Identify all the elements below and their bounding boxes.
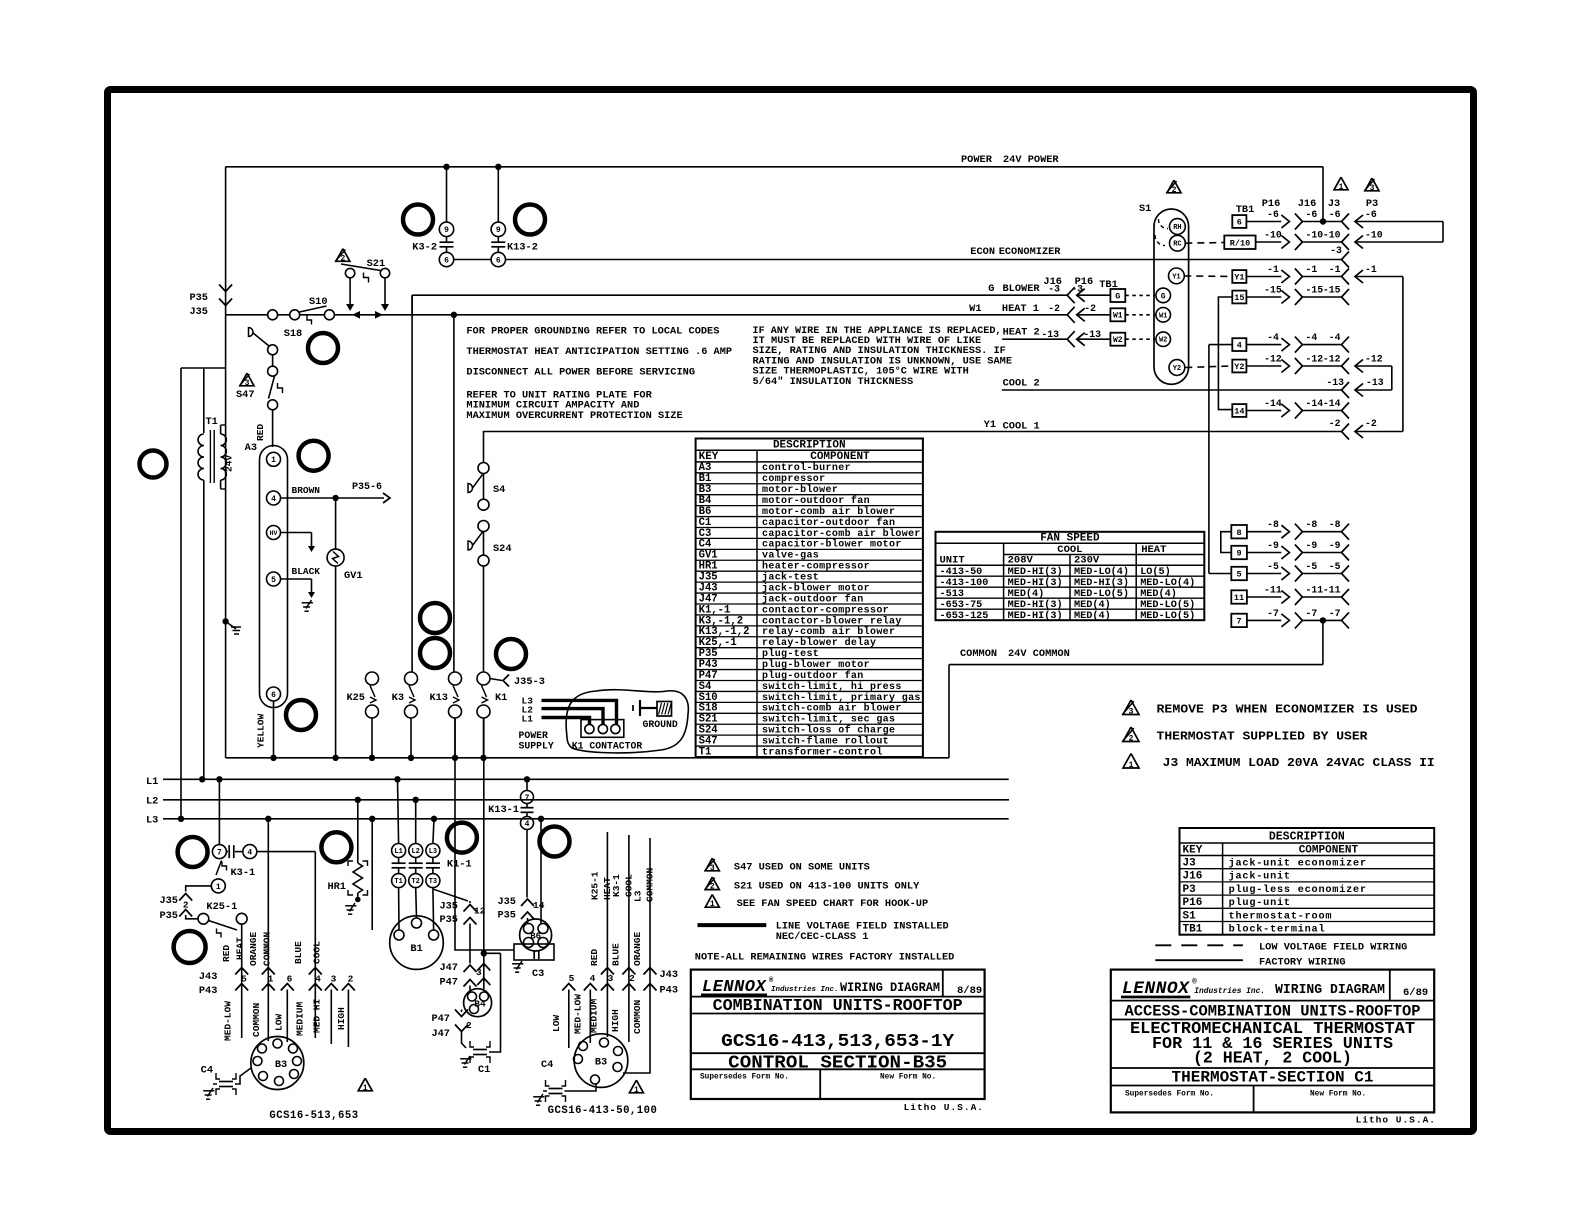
svg-text:C4: C4 — [201, 1065, 213, 1077]
svg-text:-6: -6 — [1267, 209, 1279, 220]
svg-text:-9: -9 — [1329, 540, 1341, 551]
svg-text:ECONOMIZER: ECONOMIZER — [999, 246, 1062, 258]
svg-text:1: 1 — [1129, 761, 1134, 770]
svg-text:-4: -4 — [1267, 332, 1279, 343]
svg-text:-13: -13 — [1083, 329, 1101, 340]
svg-text:Supersedes Form No.: Supersedes Form No. — [1125, 1091, 1214, 1099]
svg-text:C3: C3 — [532, 968, 544, 980]
svg-text:-653-75: -653-75 — [940, 600, 983, 611]
svg-text:9: 9 — [496, 226, 501, 235]
svg-text:POWER: POWER — [961, 154, 993, 166]
svg-text:2: 2 — [183, 900, 189, 911]
svg-text:plug-blower motor: plug-blower motor — [762, 659, 870, 671]
svg-text:K25-1: K25-1 — [590, 871, 601, 900]
svg-text:5/64" INSULATION THICKNESS: 5/64" INSULATION THICKNESS — [753, 376, 914, 388]
svg-text:6: 6 — [271, 691, 276, 700]
svg-text:3: 3 — [608, 973, 614, 984]
svg-text:New Form No.: New Form No. — [1310, 1091, 1366, 1099]
svg-text:S21 USED ON 413-100 UNITS ONLY: S21 USED ON 413-100 UNITS ONLY — [734, 880, 920, 892]
svg-text:-6: -6 — [1329, 209, 1341, 220]
svg-text:Industries Inc.: Industries Inc. — [771, 986, 839, 994]
svg-text:-8: -8 — [1306, 519, 1318, 530]
svg-text:Litho U.S.A.: Litho U.S.A. — [1356, 1115, 1436, 1126]
svg-text:MED(4): MED(4) — [1074, 610, 1111, 622]
svg-text:-5: -5 — [1306, 561, 1318, 572]
svg-text:S18: S18 — [284, 328, 303, 340]
svg-text:ECON: ECON — [970, 246, 995, 258]
svg-text:-8: -8 — [1329, 519, 1341, 530]
svg-text:S47 USED ON SOME UNITS: S47 USED ON SOME UNITS — [734, 862, 870, 874]
svg-text:NEC/CEC-CLASS 1: NEC/CEC-CLASS 1 — [776, 931, 869, 943]
svg-text:-15: -15 — [1264, 285, 1282, 296]
svg-text:POWER: POWER — [519, 730, 549, 741]
svg-text:P35: P35 — [497, 910, 516, 922]
svg-text:J43: J43 — [199, 971, 218, 983]
svg-text:MED-LOW: MED-LOW — [573, 994, 584, 1034]
svg-text:1: 1 — [1339, 183, 1344, 192]
svg-text:motor-comb air blower: motor-comb air blower — [762, 506, 895, 518]
svg-text:14: 14 — [533, 900, 545, 911]
svg-text:9: 9 — [1236, 549, 1241, 559]
svg-text:-15: -15 — [1323, 285, 1341, 296]
svg-text:MEDIUM: MEDIUM — [589, 998, 600, 1033]
svg-text:W2: W2 — [1159, 337, 1167, 345]
svg-text:L1: L1 — [146, 776, 158, 788]
svg-text:RED: RED — [221, 945, 232, 962]
svg-text:COMMON: COMMON — [960, 648, 997, 660]
svg-text:K13: K13 — [429, 692, 448, 704]
svg-text:-7: -7 — [1329, 608, 1341, 619]
svg-text:jack-test: jack-test — [762, 572, 819, 584]
svg-text:B3: B3 — [595, 1057, 607, 1069]
svg-text:G: G — [1161, 292, 1166, 301]
svg-text:24V COMMON: 24V COMMON — [1008, 648, 1070, 660]
svg-text:Y2: Y2 — [1234, 362, 1244, 372]
svg-text:B6: B6 — [530, 932, 541, 942]
svg-text:-3: -3 — [1330, 245, 1342, 256]
svg-text:ORANGE: ORANGE — [632, 931, 643, 966]
svg-text:4: 4 — [247, 848, 252, 857]
svg-text:C4: C4 — [541, 1059, 553, 1071]
svg-text:MED-LOW: MED-LOW — [223, 1001, 234, 1041]
svg-text:-6: -6 — [1306, 209, 1318, 220]
svg-text:6/89: 6/89 — [1403, 987, 1428, 999]
svg-text:Y1: Y1 — [1234, 273, 1244, 283]
svg-text:HEAT 2: HEAT 2 — [1003, 327, 1040, 339]
svg-text:G: G — [988, 283, 994, 295]
svg-text:-14: -14 — [1306, 398, 1324, 409]
svg-text:J47: J47 — [439, 962, 458, 974]
svg-text:K3-1: K3-1 — [611, 874, 622, 897]
svg-text:plug-test: plug-test — [762, 648, 819, 660]
svg-text:W1: W1 — [969, 303, 981, 315]
svg-text:K1-1: K1-1 — [447, 859, 472, 871]
svg-text:-10: -10 — [1365, 230, 1383, 241]
svg-text:K3: K3 — [392, 692, 404, 704]
svg-text:1: 1 — [216, 883, 221, 892]
svg-text:J35: J35 — [159, 895, 178, 907]
svg-text:BLUE: BLUE — [611, 943, 622, 966]
svg-text:L1: L1 — [394, 848, 402, 856]
svg-text:compressor: compressor — [762, 474, 826, 485]
svg-text:block-terminal: block-terminal — [1229, 924, 1326, 936]
svg-text:COMBINATION UNITS-ROOFTOP: COMBINATION UNITS-ROOFTOP — [713, 996, 963, 1015]
svg-text:4: 4 — [271, 495, 276, 504]
svg-text:DISCONNECT ALL POWER BEFORE SE: DISCONNECT ALL POWER BEFORE SERVICING — [466, 366, 695, 378]
svg-text:3: 3 — [1129, 707, 1134, 716]
svg-text:7: 7 — [525, 794, 530, 803]
svg-text:jack-unit: jack-unit — [1229, 871, 1291, 883]
svg-text:®: ® — [1192, 978, 1197, 987]
svg-text:B1: B1 — [410, 943, 422, 955]
svg-text:FOR PROPER GROUNDING REFER TO: FOR PROPER GROUNDING REFER TO LOCAL CODE… — [466, 326, 719, 338]
svg-text:-15: -15 — [1306, 285, 1324, 296]
svg-text:contactor-compressor: contactor-compressor — [762, 605, 889, 616]
svg-text:L2: L2 — [146, 796, 158, 808]
svg-text:-5: -5 — [1267, 561, 1279, 572]
svg-text:P43: P43 — [199, 985, 218, 997]
svg-text:S24: S24 — [493, 543, 512, 555]
svg-text:K3-2: K3-2 — [412, 242, 437, 254]
svg-text:CONTROL SECTION-B35: CONTROL SECTION-B35 — [728, 1053, 947, 1073]
svg-text:DESCRIPTION: DESCRIPTION — [1269, 831, 1345, 844]
svg-text:NOTE-ALL REMAINING WIRES FACTO: NOTE-ALL REMAINING WIRES FACTORY INSTALL… — [695, 952, 955, 964]
svg-text:ACCESS-COMBINATION UNITS-ROOFT: ACCESS-COMBINATION UNITS-ROOFTOP — [1125, 1002, 1421, 1020]
svg-text:2: 2 — [340, 254, 345, 263]
svg-text:DESCRIPTION: DESCRIPTION — [773, 440, 846, 452]
svg-text:capacitor-comb air blower: capacitor-comb air blower — [762, 528, 921, 540]
svg-text:SUPPLY: SUPPLY — [519, 741, 554, 752]
svg-text:L3: L3 — [146, 815, 158, 827]
svg-text:MED-HI(3): MED-HI(3) — [1074, 577, 1129, 589]
svg-text:capacitor-outdoor fan: capacitor-outdoor fan — [762, 517, 895, 529]
svg-text:COOL 2: COOL 2 — [1003, 378, 1040, 390]
svg-text:-13: -13 — [1326, 377, 1344, 388]
svg-text:GV1: GV1 — [344, 570, 363, 582]
svg-text:K25-1: K25-1 — [206, 901, 237, 913]
svg-text:K25: K25 — [346, 692, 365, 704]
svg-text:S1: S1 — [1183, 910, 1197, 922]
svg-text:YELLOW: YELLOW — [256, 713, 267, 748]
svg-text:-7: -7 — [1306, 608, 1318, 619]
svg-text:P3: P3 — [1183, 884, 1197, 896]
svg-text:P35: P35 — [189, 292, 208, 304]
svg-text:MED(4): MED(4) — [1074, 599, 1111, 611]
svg-text:motor-blower: motor-blower — [762, 484, 838, 496]
svg-text:GCS16-413-50,100: GCS16-413-50,100 — [548, 1105, 658, 1117]
svg-text:-11: -11 — [1264, 585, 1282, 596]
svg-text:-7: -7 — [1267, 608, 1279, 619]
svg-text:-653-125: -653-125 — [940, 611, 989, 622]
svg-text:switch-flame rollout: switch-flame rollout — [762, 735, 889, 747]
svg-text:K13-1: K13-1 — [488, 804, 519, 816]
svg-text:B4: B4 — [474, 999, 486, 1010]
svg-text:REMOVE P3 WHEN ECONOMIZER IS U: REMOVE P3 WHEN ECONOMIZER IS USED — [1157, 703, 1418, 717]
svg-text:valve-gas: valve-gas — [762, 550, 819, 562]
svg-text:-5: -5 — [1329, 561, 1341, 572]
svg-text:J47: J47 — [431, 1028, 450, 1040]
svg-text:SEE FAN SPEED CHART FOR HOOK-U: SEE FAN SPEED CHART FOR HOOK-UP — [737, 898, 929, 910]
svg-text:MED-LO(4): MED-LO(4) — [1074, 566, 1129, 578]
svg-text:-1: -1 — [1306, 264, 1318, 275]
svg-text:P43: P43 — [660, 985, 679, 997]
svg-text:MEDIUM: MEDIUM — [295, 1001, 306, 1036]
svg-text:J3 MAXIMUM LOAD 20VA 24VAC CLA: J3 MAXIMUM LOAD 20VA 24VAC CLASS II — [1163, 756, 1435, 770]
svg-text:-6: -6 — [1365, 209, 1377, 220]
svg-text:Y2: Y2 — [1173, 365, 1181, 373]
svg-text:-8: -8 — [1267, 519, 1279, 530]
svg-text:-11: -11 — [1323, 585, 1341, 596]
svg-text:Supersedes Form No.: Supersedes Form No. — [700, 1074, 789, 1082]
svg-text:P35-6: P35-6 — [352, 482, 382, 493]
svg-text:ORANGE: ORANGE — [248, 931, 259, 966]
svg-text:motor-outdoor fan: motor-outdoor fan — [762, 495, 870, 507]
svg-text:MED HI: MED HI — [312, 999, 323, 1033]
svg-text:4: 4 — [1237, 341, 1242, 351]
svg-text:15: 15 — [1234, 293, 1244, 303]
svg-text:S1: S1 — [1139, 203, 1151, 215]
svg-text:contactor-blower relay: contactor-blower relay — [762, 615, 902, 627]
svg-text:COMMON: COMMON — [251, 1002, 262, 1037]
svg-text:-2: -2 — [1084, 303, 1096, 314]
svg-text:-413-100: -413-100 — [940, 578, 989, 589]
svg-text:New Form No.: New Form No. — [880, 1074, 936, 1082]
svg-text:24V: 24V — [224, 455, 235, 472]
svg-text:W1: W1 — [1159, 312, 1167, 320]
svg-text:switch-limit, sec gas: switch-limit, sec gas — [762, 714, 895, 726]
svg-text:plug-less economizer: plug-less economizer — [1229, 884, 1367, 896]
svg-text:J43: J43 — [660, 969, 679, 981]
svg-text:11: 11 — [1234, 593, 1244, 603]
svg-text:HEAT: HEAT — [235, 937, 246, 960]
svg-text:-13: -13 — [1041, 329, 1059, 340]
svg-text:heater-compressor: heater-compressor — [762, 561, 870, 573]
svg-text:COOL: COOL — [312, 941, 323, 964]
svg-text:MAXIMUM OVERCURRENT PROTECTION: MAXIMUM OVERCURRENT PROTECTION SIZE — [466, 410, 682, 422]
svg-text:W2: W2 — [1113, 336, 1123, 345]
svg-text:-10: -10 — [1306, 230, 1324, 241]
svg-text:8: 8 — [1236, 528, 1241, 538]
svg-text:6: 6 — [496, 256, 501, 265]
svg-text:jack-blower motor: jack-blower motor — [762, 582, 870, 594]
svg-text:switch-loss of charge: switch-loss of charge — [762, 725, 895, 737]
svg-text:9: 9 — [444, 226, 449, 235]
svg-text:-9: -9 — [1306, 540, 1318, 551]
svg-text:RED: RED — [589, 949, 600, 966]
svg-text:3: 3 — [245, 379, 250, 388]
svg-text:control-burner: control-burner — [762, 462, 851, 474]
svg-text:P16: P16 — [1183, 897, 1203, 909]
svg-text:L2: L2 — [411, 848, 419, 856]
svg-text:W1: W1 — [1113, 312, 1123, 321]
svg-text:1: 1 — [634, 1086, 639, 1095]
svg-text:BLACK: BLACK — [292, 566, 321, 577]
svg-text:MED(4): MED(4) — [1008, 588, 1045, 600]
svg-text:-4: -4 — [1329, 332, 1341, 343]
svg-text:2: 2 — [629, 973, 635, 984]
svg-text:HV: HV — [270, 530, 278, 537]
svg-text:L3: L3 — [633, 890, 644, 902]
svg-text:RED: RED — [255, 424, 266, 441]
svg-text:WIRING DIAGRAM: WIRING DIAGRAM — [840, 980, 940, 995]
svg-text:COMMON: COMMON — [262, 931, 273, 966]
svg-text:THERMOSTAT HEAT ANTICIPATION S: THERMOSTAT HEAT ANTICIPATION SETTING .6 … — [466, 346, 732, 358]
svg-text:GCS16-513,653: GCS16-513,653 — [269, 1110, 358, 1122]
svg-text:7: 7 — [1236, 616, 1241, 626]
svg-text:COMPONENT: COMPONENT — [810, 451, 870, 463]
svg-text:-14: -14 — [1264, 398, 1282, 409]
svg-text:B3: B3 — [275, 1059, 287, 1071]
svg-text:MED-LO(4): MED-LO(4) — [1140, 577, 1195, 589]
svg-text:-12: -12 — [1264, 354, 1282, 365]
svg-text:WIRING DIAGRAM: WIRING DIAGRAM — [1275, 983, 1385, 998]
svg-text:MED(4): MED(4) — [1140, 588, 1177, 600]
svg-text:-11: -11 — [1306, 585, 1324, 596]
svg-text:THERMOSTAT-SECTION C1: THERMOSTAT-SECTION C1 — [1172, 1069, 1374, 1087]
svg-text:J35: J35 — [189, 306, 208, 318]
svg-text:jack-unit economizer: jack-unit economizer — [1229, 858, 1367, 870]
svg-text:COMMON: COMMON — [632, 999, 643, 1034]
svg-text:A3: A3 — [245, 442, 257, 454]
svg-text:-513: -513 — [940, 589, 964, 600]
svg-text:THERMOSTAT SUPPLIED BY USER: THERMOSTAT SUPPLIED BY USER — [1157, 730, 1369, 744]
svg-text:K13-2: K13-2 — [507, 242, 538, 254]
svg-text:GROUND: GROUND — [643, 719, 678, 730]
svg-text:S4: S4 — [493, 484, 505, 496]
svg-text:MED-HI(3): MED-HI(3) — [1008, 577, 1063, 589]
svg-text:(2 HEAT, 2 COOL): (2 HEAT, 2 COOL) — [1193, 1049, 1352, 1068]
svg-text:-13: -13 — [1366, 377, 1384, 388]
svg-text:-14: -14 — [1323, 398, 1341, 409]
svg-text:-12: -12 — [1306, 354, 1324, 365]
svg-text:S10: S10 — [309, 296, 328, 308]
svg-text:HEAT 1: HEAT 1 — [1002, 303, 1039, 315]
svg-text:L1: L1 — [522, 714, 534, 725]
svg-text:3: 3 — [710, 864, 715, 873]
svg-text:4: 4 — [590, 973, 596, 984]
svg-text:Litho U.S.A.: Litho U.S.A. — [904, 1102, 984, 1113]
svg-text:-3: -3 — [1048, 284, 1060, 295]
svg-text:MED-LO(5): MED-LO(5) — [1140, 610, 1195, 622]
svg-text:T2: T2 — [411, 878, 419, 886]
svg-text:-1: -1 — [1365, 264, 1377, 275]
svg-text:BLOWER: BLOWER — [1003, 283, 1041, 295]
svg-text:HR1: HR1 — [327, 881, 346, 893]
svg-text:HIGH: HIGH — [336, 1007, 347, 1030]
svg-text:MED-HI(3): MED-HI(3) — [1008, 566, 1063, 578]
svg-text:T3: T3 — [429, 878, 437, 886]
svg-text:3: 3 — [1370, 184, 1375, 193]
svg-text:LOW: LOW — [551, 1015, 562, 1032]
svg-text:RC: RC — [1173, 241, 1181, 249]
svg-text:FACTORY WIRING: FACTORY WIRING — [1259, 957, 1346, 969]
svg-text:S47: S47 — [236, 389, 255, 401]
svg-text:Y1: Y1 — [984, 419, 996, 431]
svg-text:4: 4 — [525, 820, 530, 829]
svg-text:-9: -9 — [1267, 540, 1279, 551]
svg-text:P47: P47 — [439, 977, 458, 989]
svg-text:-4: -4 — [1306, 332, 1318, 343]
svg-text:2: 2 — [710, 883, 715, 892]
svg-text:K3-1: K3-1 — [231, 867, 256, 879]
svg-text:J16: J16 — [1183, 871, 1203, 883]
svg-text:-1: -1 — [1329, 264, 1341, 275]
svg-text:5: 5 — [271, 576, 276, 585]
svg-text:J35: J35 — [497, 896, 516, 908]
svg-text:K1: K1 — [495, 692, 507, 704]
svg-text:2: 2 — [1129, 734, 1134, 743]
svg-text:1: 1 — [710, 900, 715, 909]
svg-text:J35-3: J35-3 — [514, 676, 545, 688]
svg-text:-12: -12 — [1365, 354, 1383, 365]
svg-text:4: 4 — [315, 974, 321, 985]
svg-text:-2: -2 — [1048, 303, 1060, 314]
svg-text:COMMON: COMMON — [645, 867, 656, 902]
svg-text:-10: -10 — [1323, 230, 1341, 241]
svg-text:LO(5): LO(5) — [1140, 566, 1171, 578]
svg-text:TB1: TB1 — [1183, 924, 1203, 936]
svg-text:Industries Inc.: Industries Inc. — [1194, 987, 1265, 996]
svg-text:-2: -2 — [1365, 418, 1377, 429]
svg-text:K1 CONTACTOR: K1 CONTACTOR — [572, 741, 643, 752]
svg-text:MED-HI(3): MED-HI(3) — [1008, 610, 1063, 622]
svg-text:T1: T1 — [206, 416, 218, 428]
svg-text:switch-limit, hi press: switch-limit, hi press — [762, 681, 902, 693]
svg-text:T1: T1 — [699, 746, 712, 758]
svg-text:-12: -12 — [1323, 354, 1341, 365]
svg-text:MED-LO(5): MED-LO(5) — [1140, 599, 1195, 611]
svg-text:switch-limit, primary gas: switch-limit, primary gas — [762, 692, 921, 704]
svg-text:switch-comb air blower: switch-comb air blower — [762, 703, 902, 715]
svg-text:HIGH: HIGH — [610, 1009, 621, 1032]
svg-text:7: 7 — [217, 848, 222, 857]
svg-text:TB1: TB1 — [1236, 204, 1255, 216]
svg-text:2: 2 — [466, 1020, 472, 1031]
svg-text:MED-LO(5): MED-LO(5) — [1074, 588, 1129, 600]
svg-text:L3: L3 — [429, 848, 437, 856]
svg-text:1: 1 — [363, 1084, 368, 1093]
svg-text:transformer-control: transformer-control — [762, 746, 883, 758]
svg-text:COOL 1: COOL 1 — [1003, 421, 1040, 433]
svg-text:plug-unit: plug-unit — [1229, 897, 1291, 909]
svg-text:BLUE: BLUE — [293, 941, 304, 964]
svg-text:P47: P47 — [431, 1013, 450, 1025]
svg-text:LOW: LOW — [274, 1014, 285, 1031]
svg-text:P35: P35 — [159, 910, 178, 922]
svg-text:J3: J3 — [1183, 858, 1197, 870]
svg-text:capacitor-blower motor: capacitor-blower motor — [762, 539, 902, 551]
svg-text:-1: -1 — [1267, 264, 1279, 275]
svg-text:C1: C1 — [478, 1064, 490, 1076]
svg-text:-413-50: -413-50 — [940, 567, 983, 578]
svg-text:COMPONENT: COMPONENT — [1299, 845, 1359, 857]
svg-text:6: 6 — [444, 256, 449, 265]
svg-text:Y1: Y1 — [1172, 273, 1180, 281]
svg-text:RH: RH — [1173, 224, 1181, 232]
svg-text:relay-comb air blower: relay-comb air blower — [762, 626, 895, 638]
svg-text:14: 14 — [1234, 407, 1244, 417]
svg-text:1: 1 — [271, 456, 276, 465]
svg-text:5: 5 — [569, 973, 575, 984]
svg-text:jack-outdoor fan: jack-outdoor fan — [762, 593, 864, 605]
svg-text:plug-outdoor fan: plug-outdoor fan — [762, 670, 864, 682]
svg-text:GCS16-413,513,653-1Y: GCS16-413,513,653-1Y — [721, 1031, 955, 1052]
svg-text:-2: -2 — [1329, 418, 1341, 429]
svg-text:G: G — [1115, 291, 1120, 301]
svg-text:thermostat-room: thermostat-room — [1229, 910, 1333, 922]
svg-text:2: 2 — [1172, 186, 1177, 195]
svg-text:5: 5 — [1236, 570, 1241, 580]
